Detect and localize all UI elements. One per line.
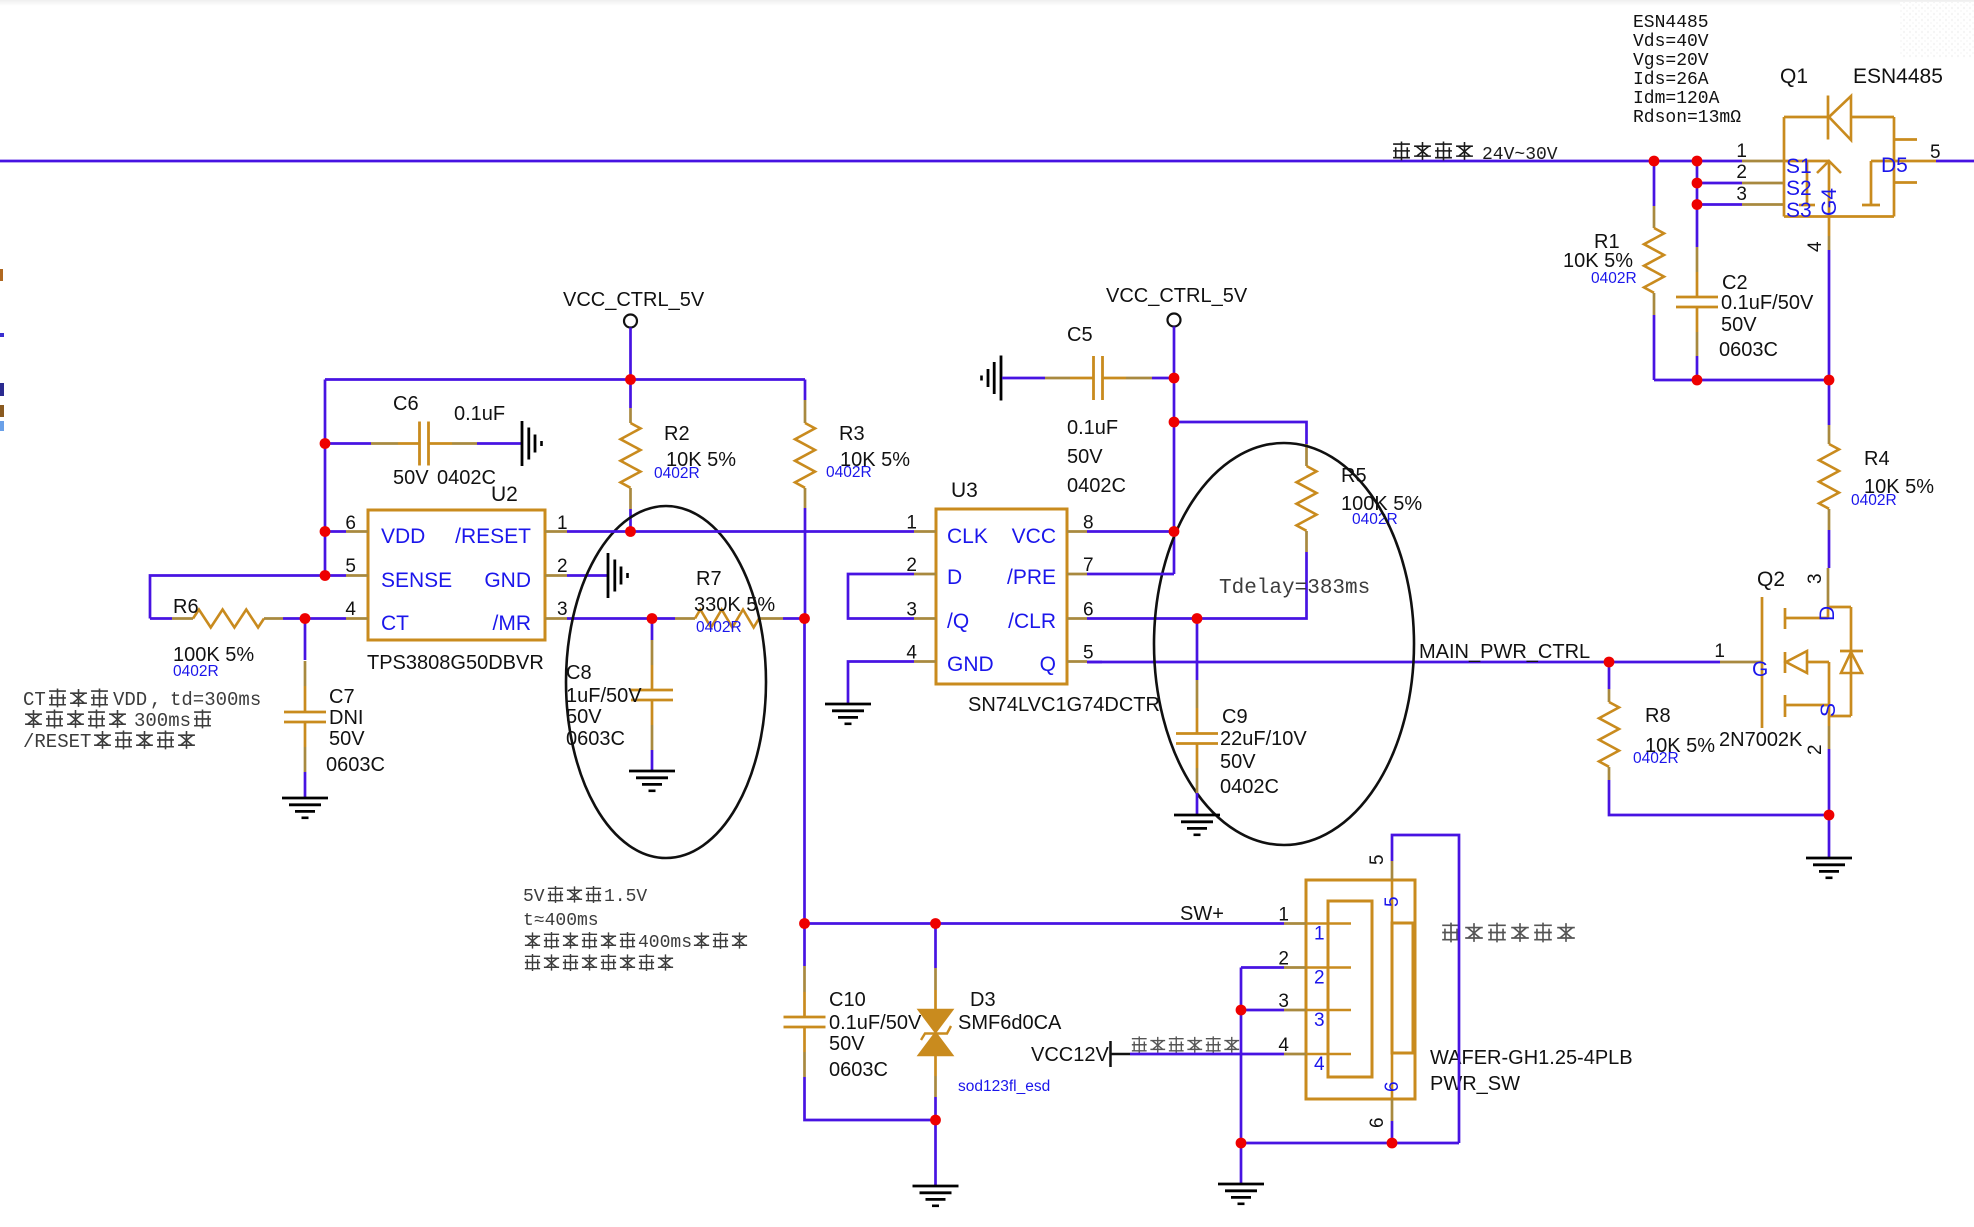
svg-text:400ms: 400ms [638, 933, 692, 953]
svg-text:Vds=40V: Vds=40V [1633, 32, 1709, 52]
resistor R8 [1599, 689, 1619, 780]
pin number U2 3 [557, 599, 568, 620]
value C2 50V [1721, 314, 1757, 336]
svg-text:50V: 50V [1721, 314, 1757, 336]
value U3 SN74LVC1G74DCTR [968, 694, 1160, 716]
svg-text:Q: Q [1040, 653, 1056, 676]
wire SENSE loop left [150, 576, 325, 619]
pin number Q1 4 [1805, 241, 1826, 252]
svg-text:C6: C6 [393, 393, 419, 415]
svg-text:4: 4 [1314, 1054, 1325, 1075]
pin name U3 Q [1040, 653, 1056, 676]
wire S-bus vertical [1696, 161, 1699, 205]
footprint R3 0402R [826, 464, 872, 481]
pin stub U3 right 6 [1067, 617, 1087, 620]
net label VCC_CTRL_5V left [563, 289, 705, 311]
label R7 [696, 568, 722, 590]
svg-text:/PRE: /PRE [1007, 566, 1056, 589]
pin number CN1 5 [1367, 854, 1388, 865]
pin name U3 D [947, 566, 962, 589]
pin stub Q2 pin3 [1827, 568, 1830, 607]
svg-text:2N7002K: 2N7002K [1719, 729, 1803, 751]
svg-text:VCC12V: VCC12V [1031, 1044, 1109, 1066]
svg-text:330K 5%: 330K 5% [694, 594, 775, 616]
junction SENSE branch [320, 570, 331, 581]
svg-text:/CLR: /CLR [1008, 610, 1056, 633]
wire bottom bus R1-C2-G4 [1654, 379, 1829, 382]
value C6 50V [393, 467, 429, 489]
svg-text:Ids=26A: Ids=26A [1633, 70, 1709, 90]
svg-text:0402R: 0402R [826, 464, 872, 481]
svg-text:0.1uF/50V: 0.1uF/50V [829, 1012, 922, 1034]
pin name CN1 6 inner [1382, 1081, 1403, 1092]
svg-text:U2: U2 [491, 483, 518, 506]
pin name CN1 5 inner [1382, 896, 1403, 907]
resistor R2 [621, 408, 641, 509]
svg-text:0402R: 0402R [173, 663, 219, 680]
wire VCC8 [1087, 530, 1174, 533]
svg-text:1.5V: 1.5V [604, 887, 647, 907]
pin number Q2 3 [1805, 573, 1826, 584]
svg-text:PWR_SW: PWR_SW [1430, 1073, 1520, 1095]
pin number U3 6 [1083, 600, 1094, 621]
svg-text:0402R: 0402R [1851, 492, 1897, 509]
svg-text:50V: 50V [566, 706, 602, 728]
resistor R1 [1644, 206, 1664, 315]
pin stub U2 pin1 [545, 530, 567, 533]
svg-text:50V: 50V [329, 728, 365, 750]
pin name U3 /PRE [1007, 566, 1056, 589]
svg-text:1: 1 [1314, 924, 1325, 945]
pin name U2 SENSE [381, 569, 452, 592]
svg-text:1: 1 [906, 513, 917, 534]
svg-text:50V: 50V [1220, 751, 1256, 773]
ground C6 [522, 421, 542, 466]
footprint R6 0402R [173, 663, 219, 680]
resistor R7 [675, 610, 783, 628]
ground C9 [1174, 815, 1220, 835]
svg-text:0603C: 0603C [566, 728, 625, 750]
pin number Q1 3 [1736, 184, 1747, 205]
wire SW+ rail [805, 922, 1285, 925]
value C7 0603C [326, 754, 385, 776]
wire Q1 D5 to right edge [1936, 160, 1974, 163]
junction C5 [1169, 373, 1180, 384]
resistor R4 [1819, 425, 1839, 530]
IC U3 body [936, 509, 1067, 684]
svg-text:R2: R2 [664, 423, 690, 445]
svg-text:GND: GND [947, 653, 994, 676]
label C8 [566, 662, 592, 684]
wire D3 bottom [934, 1076, 937, 1185]
svg-text:R6: R6 [173, 596, 199, 618]
wire R1 bottom [1653, 315, 1656, 380]
wire CN1 pin6 down [1391, 1121, 1394, 1143]
resistor R3 [795, 400, 815, 508]
pin stub Q2 gate [1720, 661, 1762, 664]
value C10 0.1uF/50V [829, 1012, 922, 1034]
svg-text:Q1: Q1 [1780, 65, 1808, 88]
footprint R7 0402R [696, 619, 742, 636]
annotation 自复按键插座 [1442, 923, 1575, 943]
pin stub U2 pin4 [346, 617, 368, 620]
svg-text:U3: U3 [951, 479, 978, 502]
wire C8 top [651, 619, 654, 641]
svg-text:VCC_CTRL_5V: VCC_CTRL_5V [563, 289, 705, 311]
annotation Tdelay=383ms [1219, 577, 1370, 600]
svg-text:10K 5%: 10K 5% [1563, 250, 1633, 272]
svg-text:DNI: DNI [329, 707, 363, 729]
svg-text:G: G [1752, 658, 1768, 681]
value C8 0603C [566, 728, 625, 750]
value C5 0.1uF [1067, 417, 1118, 439]
pin number U3 7 [1083, 555, 1094, 576]
svg-text:2: 2 [1314, 968, 1325, 989]
value C9 22uF/10V [1220, 728, 1307, 750]
pin stub CN1 3 [1284, 1009, 1351, 1012]
pin number U3 5 [1083, 643, 1094, 664]
pin name CN1 1 [1314, 924, 1325, 945]
net label VCC_CTRL_5V right [1106, 285, 1248, 307]
svg-text:0.1uF/50V: 0.1uF/50V [1721, 292, 1814, 314]
pin stub Q1 pin2 S2 [1742, 182, 1784, 185]
wire D-/Q loop [848, 574, 914, 619]
svg-text:MAIN_PWR_CTRL: MAIN_PWR_CTRL [1419, 641, 1590, 663]
pin name U2 VDD [381, 525, 425, 548]
wire VCC12V to pin4 [1130, 1053, 1284, 1056]
value R1 10K 5% [1563, 250, 1633, 272]
wire R8 bottom to source [1609, 780, 1829, 815]
svg-text:Idm=120A: Idm=120A [1633, 89, 1720, 109]
junction SW/C10 [799, 918, 810, 929]
pin name CN1 4 [1314, 1054, 1325, 1075]
pin stub Q1 pin3 S3 [1742, 203, 1784, 206]
junction S3 [1692, 199, 1703, 210]
wire R2 bottom [629, 509, 632, 532]
pin number U2 5 [345, 556, 356, 577]
footprint R8 0402R [1633, 750, 1679, 767]
junction /MR-R3-SW [799, 613, 810, 624]
svg-text:WAFER-GH1.25-4PLB: WAFER-GH1.25-4PLB [1430, 1047, 1633, 1069]
footprint R2 0402R [654, 465, 700, 482]
svg-text:5: 5 [345, 556, 356, 577]
svg-text:24V~30V: 24V~30V [1482, 145, 1558, 165]
wire CN1 bottom bus [1241, 1142, 1459, 1145]
wire R5 bottom to /CLR [1087, 552, 1307, 619]
wire /PRE [1087, 573, 1174, 576]
value C10 0603C [829, 1059, 888, 1081]
wire C9 bottom [1196, 793, 1199, 814]
svg-text:sod123fl_esd: sod123fl_esd [958, 1078, 1050, 1095]
pin number U3 3 [906, 600, 917, 621]
junction rail/R1 [1649, 156, 1660, 167]
wire R6 left [150, 617, 172, 620]
pin stub CN1 2 [1284, 966, 1351, 969]
svg-text:C8: C8 [566, 662, 592, 684]
svg-text:C10: C10 [829, 989, 866, 1011]
label C5 [1067, 324, 1093, 346]
svg-text:5: 5 [1367, 854, 1388, 865]
svg-text:C9: C9 [1222, 706, 1248, 728]
capacitor C5 [1045, 356, 1152, 400]
pin number CN1 3 [1278, 991, 1289, 1012]
capacitor C10 [784, 966, 826, 1077]
value R8 10K 5% [1645, 735, 1715, 757]
resistor R6 [172, 610, 283, 628]
ground C5 [982, 356, 1002, 401]
svg-text:GND: GND [484, 569, 531, 592]
junction CN1 pin6 [1387, 1138, 1398, 1149]
wire R2 top [629, 380, 632, 409]
pin number U3 1 [906, 513, 917, 534]
svg-text:CLK: CLK [947, 525, 988, 548]
svg-text:D: D [947, 566, 962, 589]
label R1 [1594, 231, 1620, 253]
svg-text:1: 1 [557, 513, 568, 534]
junction SW/D3 [930, 918, 941, 929]
value connector PWR_SW [1430, 1073, 1520, 1095]
svg-text:CT: CT [23, 689, 46, 711]
annotation discharge note [523, 886, 747, 971]
svg-text:50V: 50V [829, 1033, 865, 1055]
label D3 [970, 989, 996, 1011]
wire U2 SENSE [325, 574, 346, 577]
ground U2 GND [608, 553, 628, 598]
svg-text:/Q: /Q [947, 610, 969, 633]
ground Q2 source [1806, 858, 1852, 878]
svg-text:4: 4 [1278, 1035, 1289, 1056]
pin stub CN1 6 [1391, 1053, 1394, 1121]
pin stub U2 pin2 [545, 574, 567, 577]
svg-text:50V: 50V [393, 467, 429, 489]
svg-text:SMF6d0CA: SMF6d0CA [958, 1012, 1062, 1034]
svg-text:ESN4485: ESN4485 [1853, 65, 1943, 88]
junction VCC pin8 [1169, 526, 1180, 537]
label C7 [329, 686, 355, 708]
svg-text:1: 1 [1714, 641, 1725, 662]
wire C6 left [325, 442, 371, 445]
annotation CT pullup note [23, 688, 261, 753]
svg-text:SN74LVC1G74DCTR: SN74LVC1G74DCTR [968, 694, 1160, 716]
svg-text:1: 1 [1278, 905, 1289, 926]
svg-text:/RESET: /RESET [455, 525, 531, 548]
label R4 [1864, 448, 1890, 470]
wire CN1 left vertical [1240, 968, 1243, 1184]
pin name Q2 D [1816, 606, 1839, 621]
component label Q1 [1780, 65, 1808, 88]
wire C10 bottom [805, 1077, 936, 1120]
svg-text:5: 5 [1083, 643, 1094, 664]
ground D3 [913, 1186, 959, 1206]
junction Q2 source/R8 [1824, 810, 1835, 821]
value C9 50V [1220, 751, 1256, 773]
wire C8 bottom [651, 750, 654, 770]
value C6 0402C [437, 467, 496, 489]
value R6 100K 5% [173, 644, 254, 666]
transistor Q2 [1762, 597, 1863, 728]
ground C8 [629, 771, 675, 791]
pin number Q1 5 [1930, 142, 1941, 163]
net label VCC12V [1031, 1044, 1109, 1066]
svg-text:C7: C7 [329, 686, 355, 708]
net port VCC_CTRL_5V right [1168, 314, 1181, 327]
svg-text:R3: R3 [839, 423, 865, 445]
wire U3 GND [848, 662, 914, 704]
value C7 50V [329, 728, 365, 750]
value C7 DNI [329, 707, 363, 729]
svg-text:R7: R7 [696, 568, 722, 590]
svg-text:6: 6 [345, 513, 356, 534]
wire /RESET to CLK [567, 530, 914, 533]
junction CN1 pin3 [1236, 1005, 1247, 1016]
svg-text:0402R: 0402R [1591, 270, 1637, 287]
footprint D3 sod123fl_esd [958, 1078, 1050, 1095]
left edge clipped text fragments [0, 269, 4, 431]
wire C2 bottom [1696, 356, 1699, 380]
net label SW+ [1180, 903, 1224, 925]
svg-text:Tdelay=383ms: Tdelay=383ms [1219, 577, 1370, 600]
junction D3/C10 [930, 1115, 941, 1126]
pin number Q1 1 [1736, 141, 1747, 162]
pin name Q1 G4 [1818, 188, 1841, 216]
svg-text:Rdson=13mΩ: Rdson=13mΩ [1633, 108, 1741, 128]
wire CN1 pin2 [1241, 966, 1284, 969]
junction S2 [1692, 178, 1703, 189]
net label 输入电压24V~30V [1393, 141, 1558, 165]
value Q2 2N7002K [1719, 729, 1803, 751]
svg-text:CT: CT [381, 612, 409, 635]
ground U3 [825, 704, 871, 724]
svg-text:SENSE: SENSE [381, 569, 452, 592]
capacitor C8 [631, 640, 673, 750]
wire R7 right [783, 617, 805, 620]
wire S3 from S-bus [1697, 203, 1742, 206]
svg-text:0.1uF: 0.1uF [454, 403, 505, 425]
pin stub U2 pin5 [346, 574, 368, 577]
faint watermark corner [1900, 2, 1974, 58]
pin stub Q1 pin1 S1 [1742, 160, 1784, 163]
ground C7 [282, 798, 328, 818]
wire 输入电压 24V-30V main rail [0, 160, 1742, 163]
wire Q2 source down [1828, 749, 1831, 857]
footprint R1 0402R [1591, 270, 1637, 287]
junction /RESET R2 [625, 526, 636, 537]
pin stub U3 left 1 [914, 530, 936, 533]
svg-text:ESN4485: ESN4485 [1633, 13, 1709, 33]
pin name U2 CT [381, 612, 409, 635]
wire S2 from S-bus [1697, 182, 1742, 185]
pin number CN1 6 [1367, 1117, 1388, 1128]
ellipse annotation right [1154, 443, 1414, 845]
svg-text:1: 1 [1736, 141, 1747, 162]
svg-text:6: 6 [1367, 1117, 1388, 1128]
svg-text:td=300ms: td=300ms [170, 689, 261, 711]
svg-text:2: 2 [557, 556, 568, 577]
svg-text:C2: C2 [1722, 272, 1748, 294]
pin stub U3 left 3 [914, 617, 936, 620]
value R5 100K 5% [1341, 493, 1422, 515]
capacitor C7 [284, 661, 326, 772]
value connector WAFER-GH1.25-4PLB [1430, 1047, 1633, 1069]
svg-text:0402C: 0402C [1220, 776, 1279, 798]
value C6 0.1uF [454, 403, 505, 425]
pin name Q1 S1 [1786, 155, 1812, 178]
value C5 50V [1067, 446, 1103, 468]
annotation 按键灯丝供电 [1132, 1036, 1239, 1053]
text ESN4485 parameter note [1633, 13, 1741, 128]
junction MAIN/R8 [1604, 657, 1615, 668]
resistor R5 [1297, 444, 1317, 552]
svg-text:Vgs=20V: Vgs=20V [1633, 51, 1709, 71]
wire C7 top [304, 619, 307, 661]
svg-text:50V: 50V [1067, 446, 1103, 468]
svg-text:S1: S1 [1786, 155, 1812, 178]
svg-text:0402R: 0402R [696, 619, 742, 636]
wire Q out [1087, 661, 1102, 664]
svg-text:4: 4 [1805, 241, 1826, 252]
svg-text:,: , [150, 689, 161, 711]
top page shading [0, 0, 1974, 6]
svg-text:300ms: 300ms [134, 710, 191, 732]
label C9 [1222, 706, 1248, 728]
ground CN1 [1218, 1184, 1264, 1204]
pin name U2 GND [484, 569, 531, 592]
label R8 [1645, 705, 1671, 727]
wire C6 right [477, 442, 521, 445]
wire VCC port down [629, 328, 632, 380]
svg-text:0603C: 0603C [326, 754, 385, 776]
IC U2 body [368, 510, 545, 640]
wire left vertical to U2 [324, 380, 327, 576]
svg-text:t≈400ms: t≈400ms [523, 911, 599, 931]
wire CN1 pin3 [1241, 1009, 1284, 1012]
pin name Q2 G [1752, 658, 1768, 681]
wire rail to R1 [1653, 161, 1656, 206]
value R7 330K 5% [694, 594, 775, 616]
pin name Q1 S2 [1786, 177, 1812, 200]
wire R3-/MR to SW [803, 619, 806, 924]
svg-text:D: D [1816, 606, 1839, 621]
ellipse annotation left [566, 506, 766, 858]
pin stub U3 left 2 [914, 573, 936, 576]
svg-text:VCC: VCC [1012, 525, 1056, 548]
label R2 [664, 423, 690, 445]
junction VDD branch [320, 526, 331, 537]
capacitor C2 [1676, 247, 1718, 356]
wire D3 top [934, 924, 937, 991]
label C2 [1722, 272, 1748, 294]
wire CN1 pin5 loop [1392, 835, 1459, 1143]
svg-text:0402C: 0402C [437, 467, 496, 489]
pin number Q2 1 [1714, 641, 1725, 662]
wire VCC right down [1173, 327, 1176, 575]
value C2 0603C [1719, 339, 1778, 361]
label C6 [393, 393, 419, 415]
value C9 0402C [1220, 776, 1279, 798]
svg-text:3: 3 [557, 599, 568, 620]
value C2 0.1uF/50V [1721, 292, 1814, 314]
label R5 [1341, 465, 1367, 487]
pin name Q1 D5 [1881, 154, 1908, 177]
value U2 TPS3808G50DBVR [367, 652, 544, 674]
pin name U3 VCC [1012, 525, 1056, 548]
wire R5 branch [1174, 422, 1307, 444]
svg-text:VDD: VDD [381, 525, 425, 548]
svg-text:G4: G4 [1818, 188, 1841, 216]
pin stub Q2 pin2 [1828, 726, 1831, 749]
svg-text:D3: D3 [970, 989, 996, 1011]
wire G4 down [1828, 250, 1831, 380]
